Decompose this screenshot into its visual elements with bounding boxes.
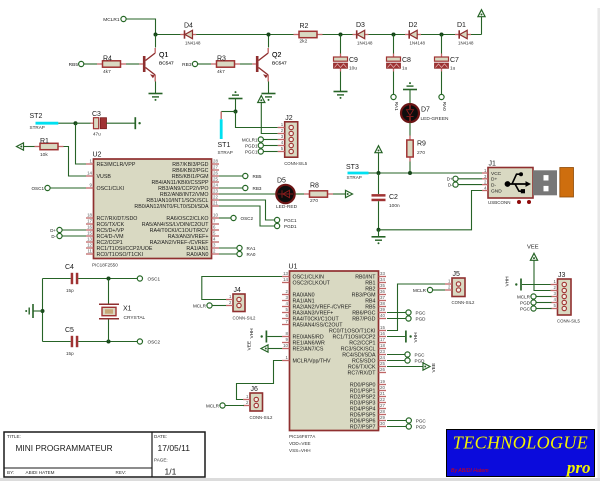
terminal D+ u2 xyxy=(57,227,62,232)
wire U1 RD7 PGD xyxy=(387,426,406,428)
terminal RB5 u2 xyxy=(243,173,248,178)
svg-text:LED-RED: LED-RED xyxy=(276,204,298,210)
svg-text:J1: J1 xyxy=(489,161,497,168)
svg-text:MCLR1: MCLR1 xyxy=(242,137,258,142)
wire C9 to gnd xyxy=(340,72,342,92)
wire U2 RB3 xyxy=(219,187,243,189)
junction J st3 xyxy=(377,171,381,175)
wire C3 to power bar xyxy=(107,122,135,124)
svg-text:37: 37 xyxy=(380,295,385,300)
svg-text:D3: D3 xyxy=(356,22,365,29)
svg-text:C2: C2 xyxy=(389,194,398,201)
svg-text:PGD1: PGD1 xyxy=(245,143,258,148)
svg-text:1/1: 1/1 xyxy=(165,467,177,477)
wire Q2 emitter to gnd xyxy=(268,82,270,94)
svg-text:VEE: VEE xyxy=(431,363,437,373)
svg-text:25: 25 xyxy=(380,361,385,366)
wire MCLR to J6 xyxy=(225,405,244,407)
svg-text:10u: 10u xyxy=(349,66,357,72)
wire arrow to RE2 xyxy=(268,348,282,350)
svg-text:RC0/T1OSO/T1CKI: RC0/T1OSO/T1CKI xyxy=(97,252,144,258)
svg-text:VDD=VEE: VDD=VEE xyxy=(289,441,311,446)
svg-text:OSC2: OSC2 xyxy=(148,339,161,344)
wire gnd stem xtal xyxy=(34,310,43,312)
wire R3 to Q2 base xyxy=(240,63,252,65)
wire C5 left xyxy=(43,341,71,343)
svg-text:R8: R8 xyxy=(310,183,319,190)
wire U1 OSC1 to J4 xyxy=(202,277,282,300)
svg-text:PGD: PGD xyxy=(416,316,427,321)
power arrow VCC top right xyxy=(478,10,485,17)
wire Q2 collector to rail xyxy=(268,35,270,48)
svg-text:26: 26 xyxy=(213,171,218,176)
wire R9 to rail2 xyxy=(409,162,411,174)
svg-text:27: 27 xyxy=(213,165,218,170)
svg-text:10: 10 xyxy=(213,213,218,218)
svg-text:4k7: 4k7 xyxy=(217,69,225,75)
svg-text:C7: C7 xyxy=(450,57,459,64)
wire R8 to arrow xyxy=(333,193,346,195)
svg-text:BC547: BC547 xyxy=(272,61,287,67)
svg-text:MCLR: MCLR xyxy=(206,403,220,408)
svg-text:29: 29 xyxy=(380,415,385,420)
svg-text:14: 14 xyxy=(283,277,288,282)
svg-text:U2: U2 xyxy=(93,152,102,159)
wire D+ to U2 xyxy=(62,229,86,231)
wire U1 RD6 PGC xyxy=(387,420,406,422)
svg-text:OSC1: OSC1 xyxy=(31,186,44,191)
power arrow VCC J2 xyxy=(258,96,265,103)
svg-text:C3: C3 xyxy=(92,111,101,118)
svg-text:RB5: RB5 xyxy=(253,174,262,179)
transistor Q1 xyxy=(139,63,143,65)
ground gnd above D7 xyxy=(403,89,417,91)
terminal OSC2 xt xyxy=(137,339,142,344)
svg-text:D+: D+ xyxy=(447,177,453,182)
svg-text:PGC1: PGC1 xyxy=(284,218,297,223)
svg-text:RB7/PGD: RB7/PGD xyxy=(352,316,375,322)
svg-text:STRAP: STRAP xyxy=(30,125,45,130)
svg-text:OSC1: OSC1 xyxy=(148,276,161,281)
svg-text:RA1: RA1 xyxy=(394,102,399,111)
junction J st2 xyxy=(74,121,78,125)
junction J c9 xyxy=(339,33,343,37)
diode D1 xyxy=(455,34,459,36)
wire U1 RC4 PGC xyxy=(387,354,405,356)
wire Q1 collector to rail xyxy=(155,35,157,48)
svg-text:PGC: PGC xyxy=(416,310,427,315)
terminal MCLR j5 xyxy=(427,287,432,292)
svg-text:D4: D4 xyxy=(184,23,193,30)
diode D4 xyxy=(180,34,184,36)
terminal PGC j3 xyxy=(531,306,536,311)
connector J6 xyxy=(250,393,263,411)
svg-text:J4: J4 xyxy=(234,287,242,294)
svg-text:REV:: REV: xyxy=(116,470,127,475)
wire U1 RB6 PGC xyxy=(387,312,406,314)
svg-text:RA0: RA0 xyxy=(247,252,256,257)
svg-text:33: 33 xyxy=(380,271,385,276)
svg-text:19: 19 xyxy=(380,379,385,384)
svg-text:21: 21 xyxy=(380,391,385,396)
svg-text:RE3/MCLR/VPP: RE3/MCLR/VPP xyxy=(97,162,136,168)
svg-text:26: 26 xyxy=(380,367,385,372)
svg-text:270: 270 xyxy=(417,150,425,156)
terminal RA1-cap xyxy=(391,94,396,99)
svg-text:RA1: RA1 xyxy=(247,246,256,251)
svg-text:GND: GND xyxy=(491,188,502,194)
svg-text:RB3: RB3 xyxy=(253,186,262,191)
wire rail to C8 xyxy=(393,35,395,54)
wire U2 OSC2 xyxy=(219,217,231,219)
svg-text:STRAP: STRAP xyxy=(347,175,362,180)
svg-text:X1: X1 xyxy=(123,306,132,313)
svg-text:20: 20 xyxy=(380,385,385,390)
svg-text:PGD: PGD xyxy=(520,300,531,305)
wire gnd to D7 xyxy=(409,90,411,104)
svg-text:C9: C9 xyxy=(349,57,358,64)
svg-text:MCLR1: MCLR1 xyxy=(103,17,120,23)
terminal D+ j1 xyxy=(453,176,458,181)
ground gnd crystal xyxy=(32,304,34,318)
svg-text:ST1: ST1 xyxy=(218,142,231,149)
wire arrow to J2 pin2 xyxy=(261,103,277,134)
svg-text:13: 13 xyxy=(283,271,288,276)
terminal PGC rb6 xyxy=(406,310,411,315)
ground gnd ST1 xyxy=(229,98,243,100)
svg-text:CONN-SIL5: CONN-SIL5 xyxy=(557,318,581,323)
terminal D- j1 xyxy=(453,182,458,187)
USB plug body xyxy=(533,170,557,195)
ground gnd Q1 xyxy=(149,93,163,95)
svg-text:47u: 47u xyxy=(93,131,101,136)
junction J q2 xyxy=(267,33,271,37)
IC U2 pins right xyxy=(212,163,220,165)
svg-text:30: 30 xyxy=(380,421,385,426)
svg-text:PGD: PGD xyxy=(416,424,427,429)
svg-text:TITLE:: TITLE: xyxy=(7,434,21,439)
svg-text:1N4148: 1N4148 xyxy=(357,41,373,46)
svg-text:D-: D- xyxy=(491,182,496,188)
svg-text:28: 28 xyxy=(380,409,385,414)
svg-text:RB0/AN12/INT0/FLT0/SDI/SDA: RB0/AN12/INT0/FLT0/SDI/SDA xyxy=(134,204,209,210)
svg-text:36: 36 xyxy=(380,289,385,294)
svg-text:15: 15 xyxy=(87,231,92,236)
wire U2 RA1 xyxy=(219,247,237,249)
terminal PGC1 j2 xyxy=(258,149,263,154)
terminal OSC1 u2 xyxy=(45,185,50,190)
capacitor C9 xyxy=(340,54,342,58)
wire PGC1 to J2 xyxy=(263,151,277,153)
junction J r9 xyxy=(408,171,412,175)
svg-text:PGC: PGC xyxy=(416,418,427,423)
terminal RB3-top xyxy=(192,61,197,66)
wire rail to C7 xyxy=(441,35,443,54)
svg-text:CONN-SIL5: CONN-SIL5 xyxy=(284,161,308,166)
wire rail to power arrow xyxy=(481,17,483,35)
resistor R4 xyxy=(97,63,103,65)
wire U1 RC6 to VEE xyxy=(387,366,423,368)
wire junction to strap xyxy=(221,111,235,113)
svg-text:BY:: BY: xyxy=(7,470,14,475)
svg-text:MCLR: MCLR xyxy=(517,294,531,299)
svg-text:Q2: Q2 xyxy=(272,52,281,59)
terminal RA0-cap xyxy=(439,94,444,99)
wire D5 to R8 xyxy=(296,193,305,195)
svg-text:J3: J3 xyxy=(558,272,566,279)
svg-text:17: 17 xyxy=(380,337,385,342)
wire U2 RB1 to PGC1 xyxy=(219,200,275,220)
resistor R3 xyxy=(211,63,217,65)
svg-text:R1: R1 xyxy=(40,138,49,145)
marker dots J1 xyxy=(517,200,521,204)
svg-text:R4: R4 xyxy=(103,56,112,63)
svg-text:15: 15 xyxy=(380,325,385,330)
svg-text:VEE: VEE xyxy=(527,245,539,251)
IC U2 pins left xyxy=(86,163,94,165)
strap ST1 xyxy=(220,112,222,120)
wire MCLR to J5 xyxy=(433,289,445,291)
junction J st1 xyxy=(234,110,238,114)
wire D7 to R9 xyxy=(409,123,411,136)
svg-text:RC7/RX/DT: RC7/RX/DT xyxy=(348,370,377,376)
wire U2 RA0 xyxy=(219,253,237,255)
wire C4 left xyxy=(43,278,71,280)
svg-text:4k7: 4k7 xyxy=(103,69,111,75)
power arrow VEE u1pin10 xyxy=(261,345,268,352)
svg-text:PIC16F877A: PIC16F877A xyxy=(289,434,316,439)
svg-text:J2: J2 xyxy=(285,115,293,122)
svg-text:PGD1: PGD1 xyxy=(284,224,297,229)
svg-text:RA0/AN0: RA0/AN0 xyxy=(186,252,208,258)
svg-text:RE2/AN7/CS: RE2/AN7/CS xyxy=(293,346,324,352)
diode D2 xyxy=(405,34,409,36)
svg-text:R9: R9 xyxy=(417,141,426,148)
svg-text:18: 18 xyxy=(87,213,92,218)
wire C5 right xyxy=(78,341,137,343)
terminal OSC2 u2 xyxy=(231,215,236,220)
transistor Q2 xyxy=(252,63,256,65)
wire x1 top xyxy=(108,279,110,305)
title block xyxy=(4,432,205,477)
wire arrow to R1 xyxy=(24,146,35,148)
wire C2 gnd stem xyxy=(378,230,380,237)
logo TECHNOLOGUE pro xyxy=(447,430,595,477)
svg-text:D+: D+ xyxy=(491,177,497,183)
power arrow VEE j3 xyxy=(530,253,537,260)
svg-text:21: 21 xyxy=(213,201,218,206)
junction J c4 x1 xyxy=(107,277,111,281)
svg-text:PGC: PGC xyxy=(415,352,426,357)
wire VHH to J3 pin1 xyxy=(522,284,552,286)
svg-text:DATE:: DATE: xyxy=(154,434,167,439)
power arrow VPP xyxy=(17,143,24,150)
svg-text:100n: 100n xyxy=(389,203,400,209)
svg-text:VHH: VHH xyxy=(413,332,419,343)
IC U1 pins left xyxy=(282,276,290,278)
svg-text:39: 39 xyxy=(380,307,385,312)
page edge strips xyxy=(0,478,600,481)
svg-text:STRAP: STRAP xyxy=(218,150,233,155)
svg-text:40: 40 xyxy=(380,313,385,318)
svg-text:17/05/11: 17/05/11 xyxy=(158,443,191,453)
svg-text:D-: D- xyxy=(51,234,56,239)
wire junction to J2 pin1 xyxy=(236,112,278,128)
svg-text:By ABIDI Hatem: By ABIDI Hatem xyxy=(451,468,489,474)
wire U1 RC5 PGD xyxy=(387,360,405,362)
wire U1 RB7 PGD xyxy=(387,318,406,320)
LED D7 xyxy=(401,104,419,122)
svg-text:RB3: RB3 xyxy=(182,62,192,68)
wire gnd to junction xyxy=(235,99,237,112)
wire ST2 node to U2 pin1 xyxy=(76,123,87,164)
svg-text:VCC: VCC xyxy=(491,171,502,177)
wire Q1 emitter to gnd xyxy=(155,82,157,94)
svg-text:R2: R2 xyxy=(300,23,309,30)
wire MCLR to J3 xyxy=(536,296,551,298)
wire OSC1 to U2 xyxy=(50,187,86,189)
junction J mclr1 xyxy=(154,33,158,37)
svg-text:D-: D- xyxy=(448,182,453,187)
svg-text:MCLR/Vpp/THV: MCLR/Vpp/THV xyxy=(293,358,331,364)
capacitor C4 xyxy=(71,273,74,284)
capacitor C7 xyxy=(441,54,443,58)
wire U2 RB5 xyxy=(219,175,243,177)
terminal MCLR1 xyxy=(121,16,126,21)
wire D- to U2 xyxy=(62,235,86,237)
IC U1 PIC16F877A xyxy=(290,271,379,431)
svg-text:U1: U1 xyxy=(289,264,298,271)
svg-text:22: 22 xyxy=(380,397,385,402)
svg-text:1u: 1u xyxy=(402,66,408,72)
terminal PGD1 j2 xyxy=(258,143,263,148)
svg-text:USBCONN: USBCONN xyxy=(488,200,511,205)
svg-text:CONN-SIL2: CONN-SIL2 xyxy=(250,415,274,420)
LED D5 xyxy=(276,193,296,195)
wire PGD to J3 xyxy=(536,302,551,304)
svg-text:ST3: ST3 xyxy=(346,164,359,171)
svg-text:Q1: Q1 xyxy=(159,52,168,59)
power arrow VEE u1pin25 xyxy=(423,363,430,370)
IC U2 PIC18F2550 xyxy=(94,159,212,259)
svg-text:15p: 15p xyxy=(66,288,74,293)
svg-text:16: 16 xyxy=(380,331,385,336)
svg-text:ABIDI HATEM: ABIDI HATEM xyxy=(26,470,55,475)
svg-text:25: 25 xyxy=(213,177,218,182)
svg-text:16: 16 xyxy=(87,225,92,230)
svg-text:15p: 15p xyxy=(66,351,74,356)
svg-text:RA0: RA0 xyxy=(442,102,447,111)
USB plug overmold xyxy=(560,168,574,198)
terminal MCLR1 j2 xyxy=(258,137,263,142)
svg-text:1N4148: 1N4148 xyxy=(410,41,426,46)
svg-text:2k2: 2k2 xyxy=(300,39,308,45)
wire R4 to Q1 base xyxy=(126,63,139,65)
wire C4 right xyxy=(78,278,137,280)
terminal PGC rd6 xyxy=(406,418,411,423)
terminal RB3 u2 xyxy=(243,185,248,190)
svg-text:23: 23 xyxy=(380,349,385,354)
wire C8 to RA1 xyxy=(393,72,395,95)
svg-text:VSS=VHH: VSS=VHH xyxy=(289,448,311,453)
svg-text:R3: R3 xyxy=(217,56,226,63)
svg-text:270: 270 xyxy=(310,198,318,204)
svg-text:VEE: VEE xyxy=(247,341,253,351)
svg-text:TECHNOLOGUE: TECHNOLOGUE xyxy=(453,433,588,453)
wire VEE to J3 pin2 xyxy=(534,260,552,290)
wire MCLR1 to rail xyxy=(126,19,155,35)
capacitor C8 xyxy=(393,54,395,58)
terminal PGD rb7 xyxy=(406,316,411,321)
svg-text:D2: D2 xyxy=(409,22,418,29)
terminal MCLR j4 xyxy=(207,303,212,308)
svg-text:10k: 10k xyxy=(40,152,48,158)
svg-text:38: 38 xyxy=(380,301,385,306)
svg-text:RD7/PSP7: RD7/PSP7 xyxy=(350,424,376,430)
terminal PGD rc5 xyxy=(405,358,410,363)
svg-text:CRYSTAL: CRYSTAL xyxy=(124,315,146,321)
svg-text:PGC: PGC xyxy=(520,306,531,311)
junction J c7 xyxy=(440,33,444,37)
ground gnd C2 xyxy=(372,236,386,238)
wire junction to C3 xyxy=(76,122,91,124)
svg-text:MINI PROGRAMMATEUR: MINI PROGRAMMATEUR xyxy=(16,443,113,453)
connector J4 xyxy=(233,294,245,312)
svg-text:OSC2/CLKOUT: OSC2/CLKOUT xyxy=(293,280,331,286)
terminal OSC1 xt xyxy=(137,276,142,281)
svg-text:LED-GREEN: LED-GREEN xyxy=(421,116,450,122)
connector J2 xyxy=(285,122,298,157)
wire R1 to U2 pin14 xyxy=(64,147,87,177)
wire U1 MCLR to J6 xyxy=(237,361,283,400)
wire PGC to J3 xyxy=(536,308,551,310)
resistor R2 xyxy=(294,34,300,36)
wire D+ to J1 xyxy=(458,178,482,180)
terminal RB5-top xyxy=(79,61,84,66)
resistor R8 xyxy=(304,193,310,195)
wire rail to C9 xyxy=(340,35,342,54)
wire main VCC rail y34 xyxy=(156,34,482,36)
svg-text:35: 35 xyxy=(380,283,385,288)
terminal RA1 u2 xyxy=(237,245,242,250)
resistor R9 xyxy=(409,136,411,141)
svg-text:VUSB: VUSB xyxy=(97,174,112,180)
USB icon xyxy=(505,181,511,187)
terminal RA0 u2 xyxy=(237,251,242,256)
svg-text:VHH: VHH xyxy=(505,276,511,287)
svg-text:D5: D5 xyxy=(277,178,286,185)
svg-text:VHH: VHH xyxy=(249,328,255,339)
svg-text:34: 34 xyxy=(380,277,385,282)
capacitor C5 xyxy=(71,336,74,347)
svg-text:1N4148: 1N4148 xyxy=(185,41,201,46)
wire MCLR1 to J2 xyxy=(263,139,277,141)
capacitor C3 xyxy=(91,122,94,124)
connector J3 xyxy=(558,279,572,315)
wire arrow to rail2 xyxy=(378,153,380,173)
svg-text:14: 14 xyxy=(87,171,92,176)
svg-text:J6: J6 xyxy=(251,386,259,393)
svg-text:24: 24 xyxy=(213,183,218,188)
terminal MCLR j3 xyxy=(531,294,536,299)
svg-text:10: 10 xyxy=(283,343,288,348)
junction J c2gnd xyxy=(377,228,381,232)
svg-text:12: 12 xyxy=(87,243,92,248)
resistor R1 xyxy=(35,146,41,148)
terminal PGD j3 xyxy=(531,300,536,305)
wire C2 to gnd node xyxy=(378,201,380,230)
power arrow VEE R8 xyxy=(346,190,353,197)
